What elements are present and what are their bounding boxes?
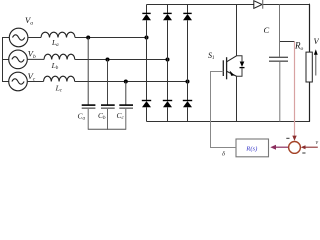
source Vb	[9, 50, 28, 69]
source Vc	[9, 72, 28, 91]
node: phase B / Cb junction	[106, 58, 110, 62]
diode D1 (bridge top leg1)	[142, 5, 151, 101]
capacitor C (output)	[269, 5, 288, 122]
diode D4 (bridge bottom leg1)	[142, 101, 151, 122]
svg-text:Cb: Cb	[98, 111, 106, 121]
resistor Ro (load)	[306, 52, 312, 82]
wire: Va to La	[28, 37, 41, 39]
transistor S1 (IGBT)	[223, 56, 236, 80]
wire: right edge lower	[309, 82, 311, 122]
wire: DC top rail	[147, 4, 310, 6]
wire: switch leg upper	[236, 5, 238, 56]
node: phase A / Ca junction	[86, 36, 90, 40]
wire: output sense tap	[280, 41, 295, 43]
svg-text:Ro: Ro	[294, 40, 304, 52]
inductor La	[41, 32, 75, 37]
svg-text:Vc: Vc	[28, 71, 36, 83]
wire: left source bus vertical	[2, 38, 4, 82]
wire: Vo arrow	[314, 49, 318, 75]
wire: phase B line to bridge	[75, 59, 168, 61]
svg-text:Lb: Lb	[51, 61, 59, 71]
diode Do (boost output diode)	[254, 0, 263, 9]
svg-text:C: C	[264, 25, 270, 35]
arrow: summing junction to R(s)	[270, 145, 288, 150]
capacitor Cb	[101, 60, 115, 130]
wire: stub left to Vc	[2, 81, 9, 83]
wire: DC bottom rail	[147, 121, 311, 123]
diode D3 (bridge top leg2)	[163, 5, 172, 101]
diode Ds (anti-parallel with S1)	[237, 56, 245, 76]
wire: feedback sense (red)	[294, 42, 296, 138]
capacitor Cc	[119, 82, 133, 130]
summing junction	[289, 142, 301, 154]
wire: switch leg lower	[236, 76, 238, 121]
arrow: into summing junction from top	[292, 136, 296, 141]
label minus (top)	[286, 137, 289, 139]
wire: Vc to Lc	[27, 81, 43, 83]
wire: stub left to Vb	[2, 59, 9, 61]
wire: right edge upper	[309, 4, 312, 52]
wire: phase C line to bridge	[75, 81, 188, 83]
svg-text:Lc: Lc	[55, 84, 63, 94]
svg-text:Vb: Vb	[28, 49, 36, 61]
svg-text:V: V	[314, 36, 320, 46]
svg-text:Ca: Ca	[78, 112, 86, 122]
svg-text:v: v	[316, 140, 319, 146]
svg-text:Cc: Cc	[117, 111, 125, 121]
diode D2 (bridge bottom leg3)	[183, 101, 192, 122]
wire: Vb to Lb	[27, 58, 44, 60]
label minus (bottom)	[302, 152, 305, 154]
controller block R(s)	[236, 139, 269, 157]
wire: phase A line to bridge	[75, 37, 147, 39]
svg-text:La: La	[51, 38, 59, 48]
source Va	[9, 28, 28, 47]
wire: reference input arrow	[301, 145, 318, 149]
svg-text:R(s): R(s)	[245, 146, 257, 153]
inductor Lb	[44, 54, 75, 59]
diode D6 (bridge bottom leg2)	[163, 101, 172, 122]
svg-text:Va: Va	[25, 15, 33, 27]
node: phase C / Cc junction	[124, 80, 128, 84]
node: phase C / bridge leg 3	[186, 80, 190, 84]
wire: stub left to Va	[2, 37, 9, 39]
svg-text:S1: S1	[208, 51, 215, 61]
node: phase A / bridge leg 1	[145, 36, 149, 40]
svg-text:δ: δ	[222, 151, 226, 158]
wire: gate drive (gray)	[211, 72, 237, 148]
diode D5 (bridge top leg3)	[183, 5, 192, 101]
capacitor Ca	[82, 38, 96, 130]
inductor Lc	[44, 76, 75, 81]
wire: capacitor star point rail	[88, 128, 126, 130]
node: phase B / bridge leg 2	[166, 58, 170, 62]
